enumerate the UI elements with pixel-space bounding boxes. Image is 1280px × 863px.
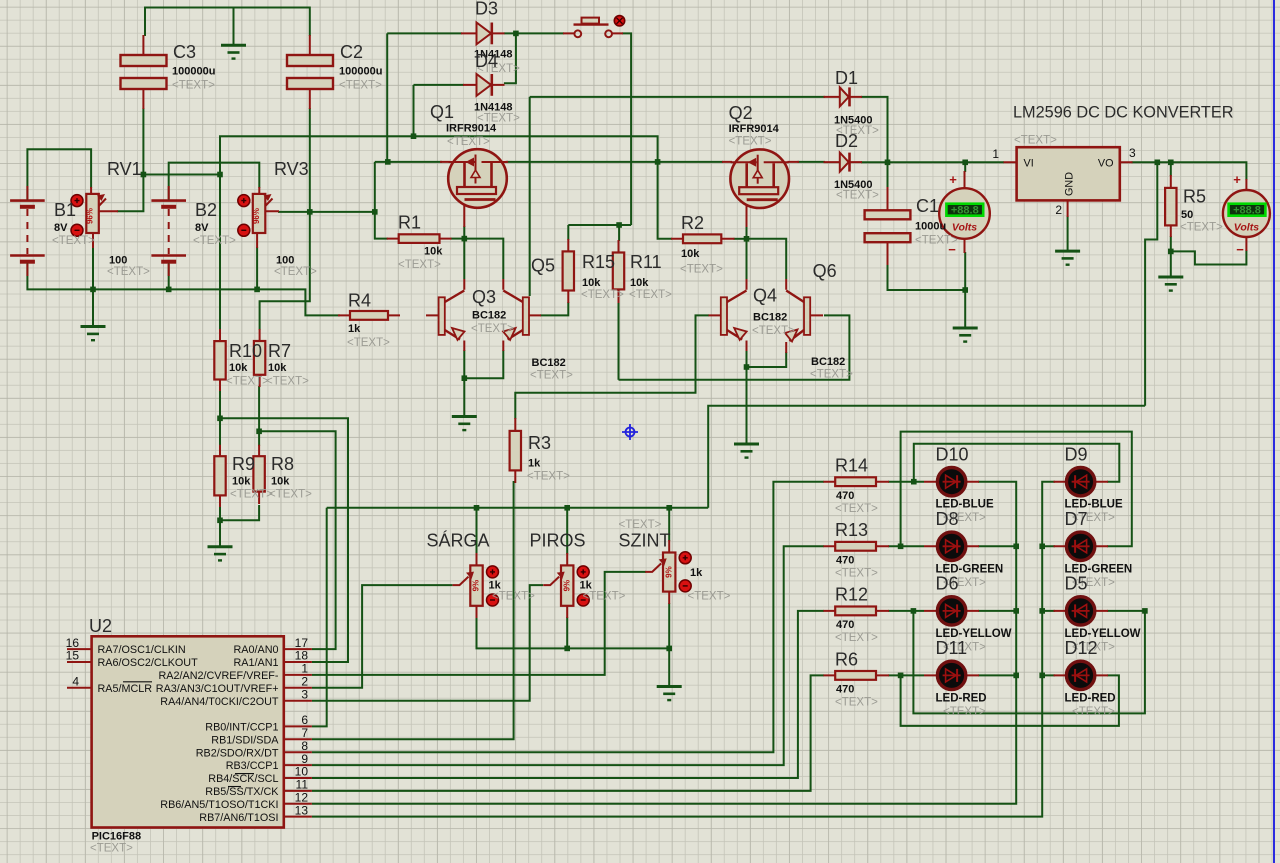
wire button node down to D4 — [504, 33, 516, 83]
wire SZINT wiper to pin1 — [312, 572, 646, 675]
pot SZINT — [645, 552, 691, 592]
svg-text:7: 7 — [301, 726, 308, 740]
svg-text:<TEXT>: <TEXT> — [915, 235, 958, 247]
Q1 gate pin — [440, 161, 508, 163]
RV1 adjust buttons — [71, 195, 83, 237]
RV3 adjust buttons — [238, 195, 250, 237]
transistor Q3 — [439, 279, 465, 351]
svg-text:RA6/OSC2/CLKOUT: RA6/OSC2/CLKOUT — [98, 657, 199, 669]
wire Q6 emitter down and over — [747, 352, 787, 367]
svg-text:11: 11 — [296, 778, 309, 792]
svg-text:<TEXT>: <TEXT> — [269, 489, 312, 501]
svg-text:B1: B1 — [54, 200, 76, 220]
svg-text:1000u: 1000u — [915, 221, 946, 233]
ground under SZINT — [657, 687, 682, 701]
svg-text:6: 6 — [301, 713, 308, 727]
svg-text:RA3/AN3/C1OUT/VREF+: RA3/AN3/C1OUT/VREF+ — [156, 683, 279, 695]
svg-text:RB6/AN5/T1OSO/T1CKI: RB6/AN5/T1OSO/T1CKI — [160, 799, 278, 811]
svg-text:100: 100 — [109, 255, 127, 267]
svg-text:B2: B2 — [195, 200, 217, 220]
svg-text:<TEXT>: <TEXT> — [810, 369, 853, 381]
resistor R15 — [563, 251, 574, 290]
svg-text:470: 470 — [836, 619, 854, 631]
wire ground stub under R9 — [219, 520, 221, 546]
LED D9 — [1066, 468, 1094, 496]
capacitor C2 pins — [309, 35, 311, 109]
svg-text:<TEXT>: <TEXT> — [477, 113, 520, 125]
svg-text:R15: R15 — [582, 252, 615, 272]
svg-text:U2: U2 — [89, 616, 112, 636]
svg-text:<TEXT>: <TEXT> — [688, 591, 731, 603]
svg-text:RB0/INT/CCP1: RB0/INT/CCP1 — [205, 722, 278, 734]
battery B1 — [10, 201, 45, 262]
R1 pins — [387, 238, 452, 240]
svg-text:BC182: BC182 — [753, 312, 787, 324]
wire pin12 to cathode bus left — [312, 482, 1016, 804]
wire VM1 plus stub — [964, 162, 966, 172]
wire RV3 bottom to bus — [256, 247, 258, 289]
D2 pins — [824, 161, 863, 163]
svg-text:16: 16 — [66, 636, 80, 650]
resistor R8 — [253, 456, 264, 491]
svg-text:D7: D7 — [1065, 509, 1088, 529]
wire pin6 riser — [312, 508, 327, 727]
LED left column pins — [924, 482, 979, 676]
svg-text:RB2/SDO/RX/DT: RB2/SDO/RX/DT — [196, 747, 279, 759]
wire RV1 wiper to C3 node — [117, 175, 143, 212]
wire C3 bottom riser — [142, 108, 144, 175]
svg-text:RB5/SS/TX/CK: RB5/SS/TX/CK — [205, 786, 279, 798]
wire main y136 run — [220, 136, 658, 174]
transistor Q6 — [785, 279, 823, 353]
R12 pins — [823, 610, 889, 612]
wire R5 node to VM2 minus — [1171, 250, 1247, 265]
svg-text:C1: C1 — [916, 196, 939, 216]
wire R11 to Q6 base run — [619, 315, 850, 379]
capacitor C3 pins — [142, 35, 144, 109]
R3 pins — [514, 418, 516, 483]
voltmeter VM1 pins — [964, 171, 966, 253]
svg-text:R6: R6 — [835, 650, 858, 670]
LED D11 — [937, 661, 965, 689]
ground under LM2596 pin2 — [1055, 251, 1080, 265]
svg-text:RA5/MCLR: RA5/MCLR — [98, 683, 153, 695]
svg-text:<TEXT>: <TEXT> — [527, 471, 570, 483]
wire pin13 to cathode bus right — [312, 482, 1055, 817]
svg-text:PIROS: PIROS — [530, 531, 586, 551]
wire C1 top stub — [887, 162, 889, 188]
IC U2 PIC16F88 — [92, 636, 284, 827]
svg-text:R1: R1 — [398, 213, 421, 233]
D1 pins — [824, 96, 863, 98]
resistor R12 — [835, 607, 876, 616]
wire ground under Q4 — [746, 367, 748, 443]
svg-text:RB7/AN6/T1OSI: RB7/AN6/T1OSI — [199, 812, 278, 824]
wire D12 anode link R6 — [901, 675, 1119, 726]
wire pots bottom bus — [477, 617, 670, 648]
wire node y418 to pin18 riser — [220, 418, 348, 662]
svg-text:<TEXT>: <TEXT> — [835, 632, 878, 644]
svg-text:<TEXT>: <TEXT> — [530, 370, 573, 382]
wire pin9 to R13 — [312, 546, 824, 765]
wire C2 column to R7 — [260, 212, 310, 330]
wire RV1 bottom to bus — [92, 247, 94, 289]
wire PIROS wiper to pin3 — [312, 585, 543, 701]
svg-text:RA0/AN0: RA0/AN0 — [233, 644, 278, 656]
ground under R9 — [208, 547, 233, 561]
wire node y431 to pin17 riser — [259, 431, 336, 649]
resistor R3 — [510, 431, 521, 471]
svg-text:D12: D12 — [1065, 638, 1098, 658]
wire ground stub under Q3 — [463, 378, 465, 416]
svg-text:9: 9 — [301, 752, 308, 766]
svg-text:<TEXT>: <TEXT> — [629, 289, 672, 301]
wire Q3 emitter down — [463, 350, 465, 378]
svg-text:<TEXT>: <TEXT> — [339, 80, 382, 92]
svg-text:LM2596 DC DC KONVERTER: LM2596 DC DC KONVERTER — [1013, 104, 1233, 122]
wire pin8 to R14 — [312, 482, 824, 753]
wire R10 to R9 node — [219, 390, 221, 446]
svg-text:<TEXT>: <TEXT> — [835, 697, 878, 709]
wire B2 top to RV3 top — [169, 163, 260, 201]
svg-text:+88.8: +88.8 — [1233, 205, 1261, 217]
wire LM pin2 ground — [1067, 216, 1069, 251]
svg-text:LED-RED: LED-RED — [936, 692, 987, 704]
svg-text:RB1/SDI/SDA: RB1/SDI/SDA — [211, 734, 279, 746]
R8 pins — [258, 445, 260, 504]
svg-text:<TEXT>: <TEXT> — [398, 259, 441, 271]
resistor R2 — [683, 234, 721, 243]
ground under RV1 bus — [81, 327, 106, 341]
battery B2 — [151, 201, 186, 262]
wire C3 top riser — [144, 7, 146, 37]
svg-text:<TEXT>: <TEXT> — [52, 235, 95, 247]
wire Q4 collector riser — [746, 239, 748, 279]
svg-text:−: − — [1236, 242, 1244, 257]
R13 pins — [823, 545, 889, 547]
wire VM1 minus stub — [964, 252, 966, 290]
resistor R4 — [350, 311, 388, 320]
wire y97 D1 feed — [530, 96, 825, 98]
svg-text:8: 8 — [301, 739, 308, 753]
svg-text:100000u: 100000u — [172, 66, 215, 78]
wire C2 bottom riser — [309, 108, 311, 212]
svg-text:18: 18 — [295, 649, 309, 663]
U2 left pin stubs — [67, 649, 92, 688]
svg-text:10k: 10k — [681, 248, 700, 260]
wire Q1 source stub green — [463, 226, 465, 239]
svg-text:SÁRGA: SÁRGA — [427, 531, 490, 551]
svg-text:Q6: Q6 — [813, 261, 837, 281]
Q2 source pin — [746, 201, 748, 227]
svg-text:10k: 10k — [268, 362, 287, 374]
wire D3 cathode to button — [504, 32, 564, 34]
svg-text:Q3: Q3 — [472, 287, 496, 307]
svg-text:<TEXT>: <TEXT> — [581, 289, 624, 301]
wire B1 top to RV1 top — [27, 149, 91, 200]
svg-text:15: 15 — [66, 649, 80, 663]
ground under Q4 Q6 — [734, 444, 759, 458]
svg-text:BC182: BC182 — [811, 356, 845, 368]
svg-text:R7: R7 — [268, 341, 291, 361]
RV3 pins — [257, 187, 279, 248]
LED D10 — [937, 468, 965, 496]
U2 right pin stubs — [284, 649, 312, 817]
wire R2 branch riser — [658, 162, 672, 239]
svg-text:8V: 8V — [54, 222, 68, 234]
LED D6 — [937, 597, 965, 625]
wire y97 down to Q5 — [529, 97, 531, 296]
wire y406 supply run to pots — [708, 406, 1145, 508]
svg-text:LED-RED: LED-RED — [1065, 692, 1116, 704]
svg-text:RV1: RV1 — [107, 159, 142, 179]
LM2596 pin stubs — [1004, 162, 1133, 217]
wire Q5 emitter down and over — [464, 350, 503, 378]
wire PIROS bottom stub — [566, 617, 568, 648]
svg-text:D8: D8 — [936, 509, 959, 529]
resistor R14 — [835, 477, 876, 486]
ground under Q3 Q5 — [452, 417, 477, 431]
potentiometer RV1 — [86, 194, 106, 233]
svg-text:10: 10 — [295, 765, 309, 779]
wire R14 right to D10 anode — [888, 481, 924, 483]
transistor Q4 — [709, 279, 747, 351]
wire C2 top riser — [309, 7, 311, 37]
wire Q5 base to R15 bottom — [540, 302, 568, 315]
svg-text:1k: 1k — [690, 567, 703, 579]
svg-text:R11: R11 — [630, 252, 662, 272]
svg-text:R9: R9 — [232, 454, 255, 474]
R2 pins — [671, 238, 735, 240]
svg-text:96%: 96% — [86, 208, 95, 224]
wire Q1 gate wire — [375, 161, 442, 163]
svg-text:17: 17 — [295, 636, 309, 650]
D4 pins — [463, 84, 505, 86]
potentiometer RV3 — [252, 194, 272, 233]
svg-text:RA7/OSC1/CLKIN: RA7/OSC1/CLKIN — [98, 644, 186, 656]
svg-text:8V: 8V — [195, 222, 209, 234]
svg-text:1k: 1k — [528, 458, 541, 470]
resistor R10 — [214, 341, 225, 379]
svg-text:<TEXT>: <TEXT> — [266, 376, 309, 388]
voltmeter VM2 — [1223, 172, 1270, 257]
wire gate corner down to R1 — [375, 162, 388, 239]
svg-text:Q1: Q1 — [430, 102, 454, 122]
svg-text:RA2/AN2/CVREF/VREF-: RA2/AN2/CVREF/VREF- — [159, 670, 279, 682]
page border right — [1273, 0, 1275, 863]
wire D7 anode link — [901, 432, 1132, 547]
svg-text:VI: VI — [1024, 158, 1034, 170]
Q1 source pin — [463, 201, 465, 227]
resistor R6 — [835, 671, 876, 680]
svg-text:Q2: Q2 — [729, 103, 753, 123]
wire Q2 drain stub — [746, 226, 748, 239]
svg-text:RB4/SCK/SCL: RB4/SCK/SCL — [208, 773, 278, 785]
MOSFET Q1 — [448, 149, 507, 208]
svg-text:2: 2 — [301, 675, 308, 689]
svg-text:Volts: Volts — [1234, 222, 1259, 234]
svg-text:R12: R12 — [835, 585, 868, 605]
LED D5 — [1066, 597, 1094, 625]
resistor R5 — [1165, 188, 1176, 226]
wire pin7 to R3 — [312, 481, 514, 739]
diode D4 — [477, 74, 492, 96]
pot PIROS pins — [566, 553, 568, 618]
svg-text:RA1/AN1: RA1/AN1 — [233, 657, 278, 669]
wire R12 right to D6 anode — [888, 610, 924, 612]
wire R11 bottom riser — [618, 302, 620, 380]
svg-text:D3: D3 — [475, 0, 498, 19]
ground symbols (green) — [81, 45, 1184, 700]
voltmeter VM1 — [939, 172, 990, 257]
svg-text:3: 3 — [301, 687, 308, 701]
wire B2 bottom to bus — [168, 263, 170, 289]
wire ground stub top — [233, 8, 235, 46]
svg-text:100: 100 — [276, 255, 294, 267]
svg-text:RB3/CCP1: RB3/CCP1 — [226, 760, 279, 772]
svg-text:<TEXT>: <TEXT> — [107, 266, 150, 278]
svg-text:D5: D5 — [1065, 574, 1088, 594]
wire ground under SZINT — [668, 648, 670, 686]
svg-text:R2: R2 — [681, 213, 704, 233]
Q2 gate pin — [722, 161, 799, 163]
wire R3 to Q4 base run — [515, 315, 709, 419]
svg-text:470: 470 — [836, 684, 854, 696]
svg-text:<TEXT>: <TEXT> — [619, 519, 662, 531]
R11 pins — [618, 240, 620, 303]
svg-text:<TEXT>: <TEXT> — [583, 591, 626, 603]
resistor R1 — [399, 234, 440, 243]
R14 pins — [823, 481, 889, 483]
svg-text:<TEXT>: <TEXT> — [680, 264, 723, 276]
wire ground under VM1 — [964, 290, 966, 327]
LED D12 — [1066, 661, 1094, 689]
wire R15 top stub — [567, 225, 569, 240]
svg-text:+: + — [1233, 172, 1241, 187]
MOSFET Q2 — [730, 149, 789, 208]
svg-text:9%: 9% — [664, 566, 673, 578]
IC U1 LM2596 block — [1017, 147, 1120, 200]
wire pin11 to R6 — [312, 675, 824, 791]
R4 pins — [338, 314, 438, 316]
wire button right down to R15 bus — [622, 33, 631, 225]
ground under R5 — [1158, 277, 1183, 291]
wire D5 anode link R12 — [913, 611, 1145, 714]
svg-text:R8: R8 — [271, 454, 294, 474]
wire right cathode stubs D7 D5 D12 — [1042, 546, 1055, 675]
wire ground stub under RV1 — [92, 289, 94, 326]
pot SARGA — [453, 565, 499, 606]
wire R7 bottom to node y431 — [258, 386, 260, 446]
pot SARGA pins — [476, 553, 478, 618]
svg-text:C2: C2 — [340, 42, 363, 62]
svg-text:<TEXT>: <TEXT> — [471, 323, 514, 335]
pot PIROS — [543, 565, 589, 606]
svg-text:10k: 10k — [229, 362, 248, 374]
svg-text:GND: GND — [1064, 172, 1076, 196]
resistor R13 — [835, 542, 876, 551]
svg-text:C3: C3 — [173, 42, 196, 62]
diode D1 — [840, 87, 850, 106]
svg-text:<TEXT>: <TEXT> — [1072, 706, 1115, 718]
svg-text:<TEXT>: <TEXT> — [943, 706, 986, 718]
svg-text:470: 470 — [836, 555, 854, 567]
wire Q3 collector riser — [463, 239, 465, 279]
svg-text:PIC16F88: PIC16F88 — [92, 831, 142, 843]
wire R5 top stub — [1170, 162, 1172, 176]
R10 pins — [219, 329, 221, 391]
R9 pins — [219, 445, 221, 507]
svg-text:+: + — [949, 172, 957, 187]
svg-text:10k: 10k — [630, 277, 649, 289]
wire Q1 right to Q2 gate — [507, 161, 724, 163]
wire D4 anode riser — [413, 85, 415, 136]
svg-text:9%: 9% — [472, 580, 481, 592]
wire SARGA wiper to pin2 — [312, 585, 453, 688]
origin marker — [622, 424, 638, 440]
wire RV3 wiper row y212 — [278, 211, 375, 213]
diode D3 — [477, 23, 492, 45]
R7 pins — [259, 329, 261, 387]
svg-text:<TEXT>: <TEXT> — [226, 376, 269, 388]
wire Q2 right to D2 anode — [798, 161, 826, 163]
ground top C3-C2 — [221, 45, 246, 58]
capacitor C3 — [121, 55, 167, 89]
wire D3 riser down to gate node — [386, 33, 388, 162]
wire D4 anode to y136 — [414, 84, 465, 86]
RV1 pins — [91, 187, 118, 248]
svg-text:Volts: Volts — [952, 222, 977, 234]
svg-text:10k: 10k — [271, 476, 290, 488]
wire R15-R11 top bus — [568, 224, 631, 226]
wire pin10 to R12 — [312, 611, 824, 778]
svg-text:10k: 10k — [424, 246, 443, 258]
svg-text:9%: 9% — [562, 580, 571, 592]
R15 pins — [567, 239, 569, 303]
svg-text:1: 1 — [992, 147, 999, 161]
svg-text:1k: 1k — [348, 323, 361, 335]
svg-text:10k: 10k — [232, 476, 251, 488]
wire R6 right to D11 anode — [888, 674, 924, 676]
svg-text:<TEXT>: <TEXT> — [835, 568, 878, 580]
resistor R9 — [214, 456, 225, 495]
svg-text:<TEXT>: <TEXT> — [230, 489, 273, 501]
svg-text:<TEXT>: <TEXT> — [835, 503, 878, 515]
transistor Q5 — [503, 279, 541, 351]
svg-text:<TEXT>: <TEXT> — [447, 136, 490, 148]
wire Q4 emitter down — [746, 350, 748, 367]
svg-text:<TEXT>: <TEXT> — [274, 266, 317, 278]
svg-text:D6: D6 — [936, 574, 959, 594]
svg-text:96%: 96% — [252, 208, 261, 224]
svg-text:R4: R4 — [348, 291, 371, 311]
wire PIROS top stub — [566, 508, 568, 554]
wire bottom supply bus — [27, 263, 340, 315]
wire SARGA top stub — [476, 508, 478, 554]
wire C3-C2 top bus — [145, 7, 310, 9]
wire ground under R5 — [1170, 251, 1172, 276]
svg-text:R3: R3 — [528, 433, 551, 453]
wire collector node to Q5 — [464, 239, 503, 279]
svg-text:<TEXT>: <TEXT> — [193, 235, 236, 247]
svg-text:<TEXT>: <TEXT> — [90, 843, 133, 855]
svg-text:<TEXT>: <TEXT> — [729, 136, 772, 148]
wire R9 bottom node — [220, 505, 259, 520]
wire R10 column — [219, 175, 221, 331]
svg-text:13: 13 — [295, 803, 309, 817]
LED D7 — [1066, 532, 1094, 560]
D3 pins — [461, 32, 505, 34]
